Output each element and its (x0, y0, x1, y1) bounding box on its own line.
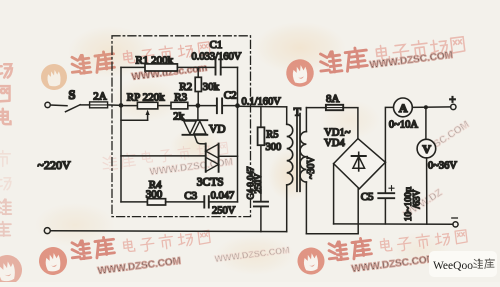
wire R3 to node B (188, 105, 216, 107)
svg-text:VD: VD (209, 124, 226, 136)
svg-text:0~36V: 0~36V (428, 161, 457, 172)
bottom-left tile (37, 230, 210, 277)
wire secondary bottom to bridge bottom (306, 189, 358, 234)
faint middle tile (102, 142, 234, 178)
svg-text:C5: C5 (361, 191, 374, 203)
svg-text:8A: 8A (326, 93, 340, 105)
resistor R4 300 (146, 179, 166, 205)
control box dash-dot border (112, 36, 251, 217)
bottom-right tile (296, 230, 467, 276)
triac 3CTS (197, 144, 224, 189)
fuse 2A (90, 90, 108, 107)
capacitor C3 0.047/250V (184, 190, 235, 216)
minus rail (334, 223, 453, 225)
wire ammeter to plus terminal (412, 106, 450, 109)
ammeter A (389, 98, 418, 130)
wire R1 row left (121, 66, 145, 68)
top-left tile (40, 42, 211, 92)
wire R4 row (121, 201, 147, 203)
svg-text:C3: C3 (184, 190, 197, 202)
svg-text:3CTS: 3CTS (197, 177, 224, 189)
wire bridge minus down (333, 164, 335, 224)
wire C2 to output node (222, 105, 237, 107)
wire R4 to C3 (166, 201, 204, 203)
output wire to transformer (238, 105, 287, 108)
svg-text:250V: 250V (253, 173, 263, 194)
output node junction dot (235, 103, 240, 108)
svg-text:0.047: 0.047 (211, 191, 235, 202)
svg-text:S: S (69, 88, 76, 102)
top-right tile (285, 37, 465, 89)
junction dot V branch (424, 105, 428, 109)
svg-text:R5: R5 (266, 130, 278, 141)
capacitor C2 (217, 90, 237, 114)
neutral bottom rail (50, 230, 286, 233)
gate wire diac to triac (195, 135, 206, 144)
svg-text:RP 220k: RP 220k (127, 91, 165, 103)
switch S (66, 88, 81, 112)
wire switch to fuse (80, 104, 89, 106)
svg-text:C1: C1 (210, 39, 223, 51)
minus output terminal (452, 218, 458, 227)
svg-text:~220V: ~220V (38, 158, 71, 172)
svg-text:0.1/160V: 0.1/160V (242, 96, 282, 107)
fuse 8A (326, 93, 343, 110)
capacitor C5 (361, 162, 423, 224)
svg-text:2A: 2A (93, 90, 107, 102)
wire fuse to bridge top (343, 108, 358, 139)
wire fuse to node A (108, 104, 121, 107)
svg-text:VD1~: VD1~ (324, 127, 350, 138)
wire bridge plus up to ammeter (385, 107, 393, 162)
svg-text:0.033/160V: 0.033/160V (192, 51, 242, 62)
transformer core (297, 114, 300, 192)
left edge partial tiles (0, 62, 12, 124)
resistor R1 200k (136, 55, 178, 71)
wire from top terminal (50, 104, 67, 107)
WeeQoo badge (429, 251, 497, 277)
wire to voltmeter (425, 107, 427, 139)
capacitor C1 0.033/160V (192, 39, 242, 75)
node A column (120, 67, 122, 202)
paper aging blotches (35, 22, 450, 275)
wire MT1 to node A column (121, 155, 206, 157)
wire RP to R3 (158, 105, 171, 107)
svg-text:WeeQoo: WeeQoo (433, 260, 473, 272)
wire node B down to diac (197, 106, 199, 121)
svg-text:V: V (422, 142, 431, 156)
input terminal top (45, 102, 50, 107)
bridge rectifier VD1~VD4 (324, 127, 385, 189)
svg-text:C2: C2 (224, 90, 237, 102)
svg-text:250V: 250V (212, 206, 236, 217)
wire MT2 to output column (219, 155, 238, 157)
svg-text:~30V: ~30V (306, 156, 317, 179)
node A junction dot (119, 103, 124, 108)
node B junction dot (196, 103, 201, 108)
transformer secondary winding ~30V (300, 108, 317, 234)
svg-text:/63V: /63V (413, 189, 423, 208)
potentiometer RP 220k (121, 91, 165, 120)
input terminal bottom (44, 228, 50, 234)
right column (triac MT2 / output node) (237, 67, 239, 202)
faint right diagonal (402, 119, 472, 220)
wire C1 to right column (221, 66, 238, 68)
wire node A to RP (121, 105, 137, 107)
plus output terminal (449, 94, 456, 110)
svg-text:30k: 30k (203, 81, 220, 93)
svg-text:R1 200k: R1 200k (136, 55, 174, 67)
wire voltmeter to minus rail (426, 158, 428, 224)
svg-text:300: 300 (146, 189, 163, 201)
diac VD (183, 120, 226, 135)
resistor R3 2k (171, 91, 188, 122)
svg-text:A: A (399, 101, 408, 115)
wire secondary top to fuse (306, 107, 326, 109)
svg-text:+: + (449, 94, 456, 106)
svg-text:0~10A: 0~10A (389, 119, 418, 130)
transformer T primary winding (287, 105, 302, 232)
resistor R5 300 (258, 107, 282, 202)
svg-text:VD4: VD4 (324, 138, 345, 149)
resistor R2 30k (179, 67, 219, 105)
voltmeter V (417, 139, 457, 171)
wire C3 to output column (209, 201, 237, 203)
wire R1 to C1 (177, 66, 215, 68)
capacitor C4 0.047/250V (246, 166, 269, 232)
svg-text:R3: R3 (174, 91, 187, 103)
svg-text:300: 300 (266, 142, 282, 153)
